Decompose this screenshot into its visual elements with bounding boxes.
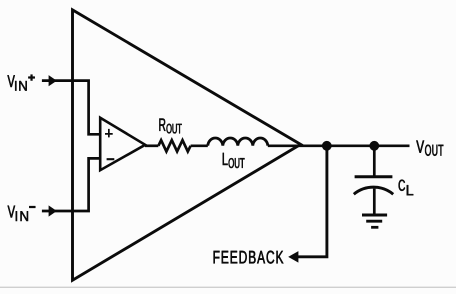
wire op-amp output to resistor (145, 144, 158, 147)
wire VIN+ input net (42, 81, 100, 135)
resistor R_OUT (158, 140, 190, 151)
wire feedback net (298, 146, 327, 257)
label CL (399, 180, 405, 191)
ground symbol (362, 214, 387, 217)
wire capacitor top stub (373, 146, 376, 177)
wire capacitor to ground (373, 189, 376, 215)
capacitor C_L top plate (355, 175, 393, 178)
label VIN- (8, 206, 16, 218)
label VIN+ (8, 75, 15, 87)
wire resistor to inductor (191, 144, 208, 147)
arrowhead VIN- input (49, 205, 57, 216)
op-amp - pin marking (107, 158, 115, 160)
arrowhead VIN+ input (49, 75, 57, 86)
node: output junction to capacitor (369, 141, 379, 151)
page separator line (0, 287, 456, 288)
inductor L_OUT (208, 138, 268, 146)
label VOUT (416, 141, 424, 153)
label FEEDBACK (214, 251, 284, 264)
arrowhead feedback (points left) (288, 251, 298, 263)
capacitor C_L curved plate (354, 187, 393, 194)
label ROUT (159, 119, 165, 131)
op-amp + pin marking (105, 129, 113, 138)
node: output junction to feedback (322, 141, 332, 151)
op-amp U2 (inner error amp triangle) (100, 118, 145, 171)
wire VIN- input net (42, 158, 100, 211)
label LOUT (223, 153, 228, 165)
wire output net to VOUT (268, 144, 410, 147)
amplifier U1 (large buffer triangle) (73, 10, 301, 280)
